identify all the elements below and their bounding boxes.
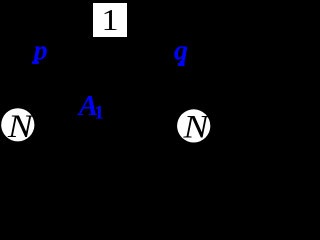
node 1 (player-1 square) <box>93 3 127 38</box>
edge label p <box>32 35 48 66</box>
node N left (nature circle) <box>1 108 34 144</box>
node label A1 <box>77 90 104 124</box>
svg-text:1: 1 <box>94 103 104 124</box>
svg-text:1: 1 <box>101 4 118 38</box>
svg-text:N: N <box>182 108 210 144</box>
svg-text:N: N <box>7 108 35 144</box>
node N right (nature circle) <box>177 108 210 144</box>
edge label q <box>174 35 188 66</box>
